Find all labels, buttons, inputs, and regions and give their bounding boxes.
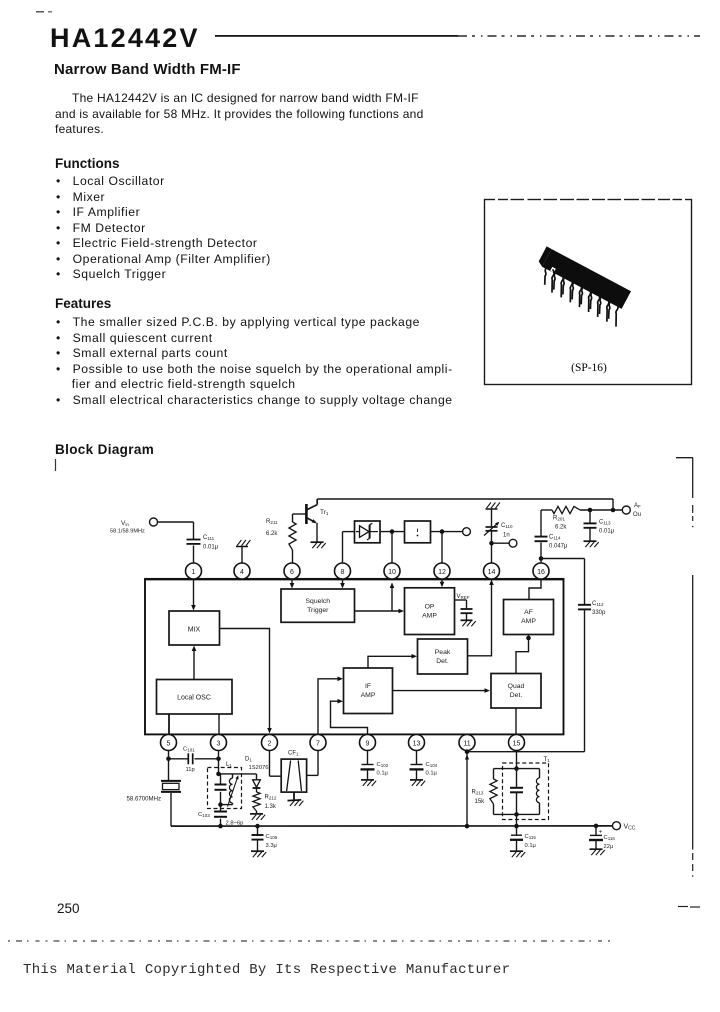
- svg-text:58.6700MHz: 58.6700MHz: [127, 796, 162, 803]
- wire diode to meter box: [380, 531, 405, 533]
- wire CF1 to pin7: [307, 751, 318, 776]
- ground below C113: [584, 541, 599, 547]
- wire AF AMP to Quad Det: [516, 635, 529, 674]
- node junction pin5: [166, 757, 171, 762]
- svg-text:C105: C105: [266, 834, 278, 840]
- resistor R212: [253, 792, 260, 813]
- node junction rail C105: [255, 824, 260, 829]
- label R213 15k: [472, 790, 486, 806]
- wire meter box to terminal: [431, 531, 463, 533]
- svg-text:C104: C104: [426, 762, 438, 768]
- diode box D201: [355, 521, 381, 543]
- label C114 0.047u: [549, 535, 568, 550]
- capacitor T1 C: [510, 769, 523, 815]
- svg-text:Tr1: Tr1: [320, 509, 329, 516]
- label C102 0.1u: [377, 762, 389, 777]
- svg-text:C116: C116: [604, 835, 616, 841]
- label T1: [544, 756, 551, 763]
- wire pin16 right to C112: [541, 559, 585, 605]
- label AF Out: [633, 503, 641, 518]
- wire ground rail: [171, 825, 613, 827]
- label C116 22u: [604, 835, 616, 850]
- wire pin12 up: [441, 532, 443, 564]
- capacitor C116 electrolytic: [589, 826, 603, 849]
- node junction pin3: [216, 757, 221, 762]
- block Peak Det: [418, 639, 468, 674]
- wire trimmer to pin14: [491, 531, 493, 564]
- svg-text:Quad: Quad: [508, 683, 525, 690]
- wire pin1 to MIX: [191, 579, 196, 611]
- label Vcc: [624, 824, 636, 832]
- svg-text:13: 13: [413, 740, 421, 747]
- terminal S-meter out: [463, 528, 471, 536]
- transformer dashed box T1: [503, 763, 549, 820]
- svg-text:+: +: [599, 829, 603, 836]
- label C115 0.1u: [525, 834, 537, 849]
- wire pin8 to Squelch: [340, 579, 345, 589]
- svg-text:3.3μ: 3.3μ: [266, 843, 277, 849]
- node junction B+ corner: [611, 508, 616, 513]
- wire pin3 down: [218, 751, 220, 759]
- resistor R201: [552, 506, 580, 513]
- label C103: [198, 812, 210, 818]
- wire Squelch to OP AMP: [355, 609, 405, 614]
- wire corner up to collector rail: [612, 499, 614, 510]
- terminal Vcc: [613, 822, 621, 830]
- node junction rail C116: [594, 824, 599, 829]
- capacitor C112: [578, 605, 591, 610]
- svg-text:1: 1: [192, 569, 196, 576]
- pin circles bottom row 5 3 2 7 9 13 11 15: [161, 735, 525, 751]
- node junction rail T1: [514, 824, 519, 829]
- svg-text:Peak: Peak: [435, 649, 451, 656]
- wire gnd to trimmer: [491, 509, 493, 527]
- svg-text:Vin: Vin: [121, 520, 129, 527]
- resistor R213: [490, 769, 517, 815]
- svg-text:6.2k: 6.2k: [266, 531, 278, 537]
- svg-text:T1: T1: [544, 756, 551, 763]
- label C105 3.3u: [266, 834, 278, 849]
- svg-text:OP: OP: [425, 604, 435, 611]
- svg-text:CF1: CF1: [288, 751, 299, 757]
- label C110 1n: [501, 523, 513, 539]
- wire tank to D1: [233, 773, 257, 775]
- svg-text:R201: R201: [553, 516, 565, 522]
- node junction above pin16: [539, 556, 544, 561]
- svg-text:7: 7: [316, 740, 320, 747]
- svg-text:R212: R212: [265, 795, 277, 801]
- svg-text:C112: C112: [592, 601, 604, 607]
- ceramic filter CF1: [281, 759, 306, 792]
- label 58.6700MHz: [127, 796, 162, 803]
- capacitor Vref bypass: [461, 609, 473, 620]
- svg-text:10: 10: [388, 569, 396, 576]
- svg-text:14: 14: [488, 569, 496, 576]
- svg-text:MIX: MIX: [188, 627, 201, 634]
- svg-text:11: 11: [463, 740, 470, 747]
- svg-text:0.047μ: 0.047μ: [549, 544, 568, 550]
- svg-text:Det.: Det.: [436, 658, 449, 665]
- label C103 value: [226, 821, 244, 827]
- wire collector rail: [317, 498, 613, 500]
- svg-text:IF: IF: [365, 683, 371, 690]
- IC package drawing: [539, 246, 631, 326]
- wire pin16 stub: [540, 559, 542, 564]
- wire MIX out to pin2: [220, 629, 272, 734]
- block Local OSC: [157, 680, 233, 715]
- svg-text:Local OSC: Local OSC: [177, 695, 211, 702]
- node junction tank bottom: [218, 802, 223, 807]
- svg-text:1S2076: 1S2076: [249, 765, 269, 771]
- label L1: [226, 762, 232, 768]
- svg-text:0.1μ: 0.1μ: [426, 771, 437, 777]
- capacitor C111: [187, 540, 201, 544]
- svg-text:1.3k: 1.3k: [265, 804, 277, 810]
- label C112 330p: [592, 601, 606, 616]
- inductor T1 coil: [517, 769, 540, 815]
- label C101 11p: [183, 747, 195, 774]
- svg-text:4: 4: [240, 569, 244, 576]
- wire pin15 down: [516, 751, 518, 769]
- wire C111 to pin1: [193, 546, 195, 564]
- wire Local OSC to pin5: [168, 714, 170, 735]
- wire Peak Det to pin14: [468, 580, 494, 656]
- wire Quad Det to pin15: [515, 708, 517, 735]
- block IF AMP: [344, 668, 393, 714]
- svg-text:Squelch: Squelch: [306, 598, 331, 605]
- terminal B+ out: [622, 506, 630, 514]
- ground below C105: [251, 851, 266, 857]
- block Squelch Trigger: [281, 589, 355, 622]
- svg-text:6: 6: [290, 569, 294, 576]
- svg-text:C110: C110: [501, 523, 513, 529]
- wire pin11 to C112: [467, 751, 585, 753]
- label C104 0.1u: [426, 762, 438, 777]
- svg-text:AMP: AMP: [521, 618, 536, 625]
- wire pin3 node down: [218, 759, 220, 774]
- wire pin10 up: [391, 532, 393, 564]
- meter box: [405, 521, 431, 543]
- ground at Tr1 emitter: [311, 542, 326, 548]
- wire C111 top: [193, 522, 195, 539]
- svg-text:C102: C102: [377, 762, 389, 768]
- wire OP AMP to Vref cap: [455, 600, 467, 609]
- ground Vref: [461, 620, 476, 626]
- node junction above pin12: [440, 529, 445, 534]
- label R201 6.2k: [553, 516, 567, 531]
- svg-text:AF: AF: [634, 503, 641, 509]
- wire pin5 down: [168, 751, 170, 759]
- svg-text:0.1μ: 0.1μ: [377, 771, 388, 777]
- crystal X1: [161, 759, 181, 826]
- diode D1: [253, 774, 261, 792]
- svg-text:15: 15: [513, 740, 521, 747]
- node junction tank top: [216, 772, 221, 777]
- svg-text:0.01μ: 0.01μ: [599, 529, 615, 535]
- svg-text:R211: R211: [266, 519, 278, 525]
- label R212 1.3k: [265, 795, 277, 811]
- wire R201 to terminal: [580, 509, 622, 511]
- capacitor C102: [361, 751, 375, 780]
- capacitor C115: [510, 826, 523, 850]
- label R211 6.2k: [266, 519, 278, 537]
- chassis ground above pin14: [486, 503, 500, 510]
- svg-text:C111: C111: [203, 535, 215, 541]
- wire to AF det terminal: [492, 542, 510, 544]
- wire CF1 ground stub: [293, 792, 295, 800]
- capacitor tank C: [215, 774, 227, 805]
- svg-text:11p: 11p: [186, 767, 195, 773]
- svg-text:VREF: VREF: [457, 594, 470, 600]
- chassis ground above pin4: [236, 540, 250, 547]
- node junction C113: [588, 508, 593, 513]
- svg-text:Trigger: Trigger: [307, 607, 329, 614]
- svg-text:AMP: AMP: [361, 692, 376, 699]
- svg-text:12: 12: [438, 569, 446, 576]
- svg-text:9: 9: [366, 740, 370, 747]
- svg-text:1n: 1n: [503, 533, 510, 539]
- node junction above pin10: [390, 529, 395, 534]
- capacitor C101: [169, 753, 219, 764]
- node junction rail pin11: [465, 824, 470, 829]
- svg-text:C103: C103: [198, 812, 210, 818]
- svg-text:AF: AF: [524, 609, 533, 616]
- wire pin12 to OP AMP: [440, 579, 445, 587]
- svg-text:C101: C101: [183, 747, 195, 753]
- node junction pin10 wire: [390, 583, 395, 612]
- footer: [57, 901, 80, 916]
- node junction T1 bottom: [514, 812, 519, 817]
- header: [50, 23, 200, 54]
- svg-text:C114: C114: [549, 535, 561, 541]
- terminal Vin input: [150, 518, 158, 526]
- page border right: [676, 458, 700, 907]
- wire C112 down: [584, 609, 586, 751]
- capacitor C113: [584, 510, 597, 541]
- capacitor C103: [214, 805, 227, 827]
- package photo box: [0, 0, 720, 420]
- label CF1: [288, 751, 299, 757]
- svg-text:8: 8: [341, 569, 345, 576]
- wire Local OSC to MIX: [192, 646, 197, 680]
- capacitor C104: [410, 751, 424, 780]
- svg-text:5: 5: [167, 740, 171, 747]
- transistor Q Tr1 base wire: [293, 513, 307, 515]
- ground below R212: [250, 814, 265, 820]
- ground below C102: [361, 780, 376, 786]
- ground below C104: [410, 780, 425, 786]
- wire pin2 to CF1: [270, 751, 282, 777]
- block AF AMP: [504, 600, 554, 635]
- terminal det out: [509, 539, 517, 547]
- svg-text:0.01μ: 0.01μ: [203, 545, 219, 551]
- wire Vin to C111: [158, 521, 194, 523]
- wire pin16 to AF AMP: [529, 579, 541, 600]
- svg-text:330p: 330p: [592, 610, 606, 616]
- svg-text:VCC: VCC: [624, 824, 636, 832]
- IC body HA12442V outline: [145, 579, 564, 735]
- svg-text:Det.: Det.: [510, 692, 523, 699]
- label Tr1: [320, 509, 329, 516]
- ground below CF1: [288, 800, 304, 806]
- wire gnd to pin4: [241, 547, 243, 564]
- trimmer capacitor C110: [484, 522, 499, 536]
- svg-text:2.8~6p: 2.8~6p: [226, 821, 244, 827]
- label Vref: [457, 594, 470, 600]
- svg-text:D1: D1: [245, 757, 252, 763]
- wire pin9 to IF AMP: [331, 699, 368, 735]
- wire Local OSC to pin3: [218, 714, 220, 735]
- node AF AMP bottom junction: [526, 636, 531, 641]
- node junction T1 top: [514, 766, 519, 771]
- node junction rail tank: [218, 824, 223, 829]
- svg-text:2: 2: [268, 740, 272, 747]
- wire IF AMP to Quad Det: [393, 688, 491, 693]
- svg-text:C115: C115: [525, 834, 537, 840]
- node junction pin11: [465, 749, 470, 754]
- wire pin16 to C114: [540, 543, 542, 559]
- block Quad Det: [491, 674, 541, 709]
- wire pin8 up: [343, 532, 355, 564]
- svg-text:22μ: 22μ: [604, 844, 614, 850]
- wire IF AMP to Peak Det: [368, 654, 417, 668]
- label C113 0.01u: [599, 520, 615, 535]
- pin circles top row 1 4 6 8 10 12 14 16: [186, 563, 550, 579]
- svg-text:R213: R213: [472, 790, 484, 796]
- svg-text:58.1/58.9MHz: 58.1/58.9MHz: [110, 529, 145, 535]
- svg-text:0.1μ: 0.1μ: [525, 843, 536, 849]
- capacitor C105: [252, 826, 264, 850]
- label Vin 58.1/58.9MHz: [110, 520, 145, 535]
- ground below C115: [510, 851, 525, 857]
- wire pin6 to Squelch: [290, 579, 295, 589]
- wire C114 to R201: [541, 510, 552, 537]
- resistor R211: [289, 514, 296, 564]
- capacitor C114: [535, 537, 548, 542]
- inductor tank dashed box L1: [208, 768, 242, 809]
- svg-text:6.2k: 6.2k: [555, 525, 567, 531]
- svg-text:15k: 15k: [475, 799, 486, 805]
- svg-text:Ou: Ou: [633, 512, 641, 518]
- inductor L1 coil: [219, 774, 239, 807]
- wire pin7 to IF AMP: [318, 676, 343, 734]
- block MIX: [169, 611, 220, 645]
- wire T1 to rail: [516, 814, 518, 826]
- svg-text:C113: C113: [599, 520, 611, 526]
- svg-text:3: 3: [217, 740, 221, 747]
- ground below C116: [590, 849, 605, 855]
- label D1 1S2076: [245, 757, 269, 772]
- transistor Tr1: [306, 499, 317, 542]
- svg-text:L1: L1: [226, 762, 232, 768]
- node junction above pin14: [489, 541, 494, 546]
- svg-text:16: 16: [537, 569, 545, 576]
- block OP AMP: [405, 588, 455, 635]
- label C111 0.01u: [203, 535, 219, 551]
- wire pin11 down: [465, 752, 469, 826]
- svg-text:AMP: AMP: [422, 613, 437, 620]
